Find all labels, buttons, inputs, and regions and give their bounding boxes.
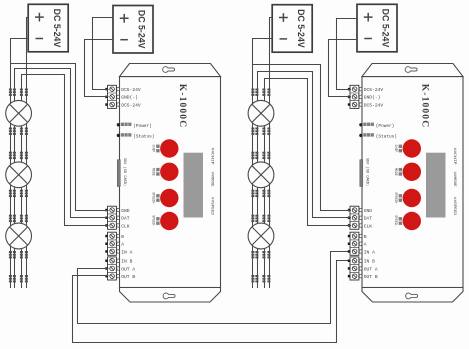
wire U1 OUT A to U2 IN A — [78, 252, 352, 324]
wire labels row 1 — [9, 89, 28, 96]
wire string GND loop to U1 GND — [11, 64, 109, 211]
power supply PS3 — [272, 5, 312, 53]
wire PS1- to string GND — [11, 39, 29, 289]
power supply PS2 — [113, 6, 153, 54]
wire labels row 10 — [251, 152, 270, 159]
power supply PS1 — [28, 4, 68, 52]
wire labels row 14 — [251, 275, 270, 282]
LED pixel L6 — [248, 223, 274, 249]
wire string CLK to U1 CLK — [22, 75, 109, 289]
LED pixel L4 — [248, 100, 274, 126]
wire PS3+ to string V+ — [270, 18, 273, 289]
LED pixel L5 — [248, 162, 274, 188]
wire labels row 9 — [251, 128, 270, 135]
wire labels row 3 — [9, 152, 28, 159]
LED pixel L3 — [6, 223, 32, 249]
wire labels row 12 — [251, 215, 270, 222]
wire PS1+ to string V+ — [27, 18, 29, 289]
wire string GND loop to U2 GND — [253, 65, 352, 211]
wire PS3- to string GND — [253, 39, 273, 289]
LED pixel L1 — [6, 100, 32, 126]
wire string DAT to U1 DAT — [15, 69, 109, 289]
wire PS4- to U2 GND(-) — [329, 40, 358, 97]
controller U2 — [348, 64, 463, 303]
wire PS4+ to U2 DC5-24V — [337, 19, 358, 90]
power supply PS4 — [357, 4, 397, 52]
wire labels row 5 — [9, 215, 28, 222]
wire labels row 8 — [251, 89, 270, 96]
wire string DAT to U2 DAT — [258, 72, 352, 289]
wire string CLK to U2 CLK — [265, 79, 352, 289]
wire labels row 4 — [9, 190, 28, 197]
wire U1 OUT B to U2 IN B — [73, 261, 352, 343]
wire PS2+ to U1 DC5-24V — [93, 18, 114, 90]
wire labels row 2 — [9, 128, 28, 135]
wire labels row 11 — [251, 190, 270, 197]
LED pixel L2 — [6, 162, 32, 188]
wire labels row 13 — [251, 251, 270, 258]
wire labels row 6 — [9, 251, 28, 258]
wire labels row 7 — [9, 275, 28, 282]
controller U1 — [105, 64, 220, 303]
wire PS2- to U1 GND(-) — [85, 40, 114, 97]
